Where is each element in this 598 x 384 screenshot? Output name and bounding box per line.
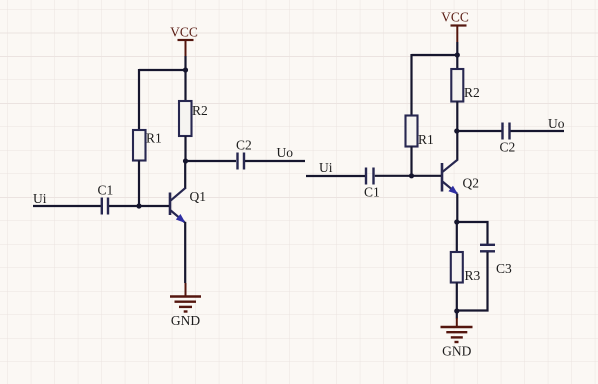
- capacitor C1 (right): [366, 168, 374, 185]
- svg-text:Q1: Q1: [190, 189, 207, 204]
- wire R1 top lead (right): [410, 54, 412, 116]
- junction at collector node (right): [454, 128, 459, 133]
- capacitor C2 (left): [238, 153, 245, 170]
- wire base node to Q1 base (left): [109, 205, 169, 207]
- wire R2 bottom to collector node (right): [456, 102, 458, 132]
- transistor Q2: [442, 160, 458, 194]
- svg-text:R3: R3: [465, 268, 481, 283]
- wire R1 top lead (left): [138, 69, 140, 130]
- capacitor C1 (left): [102, 198, 108, 215]
- svg-text:Uo: Uo: [548, 116, 565, 131]
- wire C2 to output Uo (right): [511, 130, 565, 132]
- wire R1 bottom to base node (right): [410, 147, 412, 177]
- resistor R3: [451, 252, 463, 283]
- junction at ground node (right): [454, 308, 459, 313]
- transistor Q1: [170, 188, 185, 222]
- wire VCC stub to rail junction (right): [456, 42, 458, 55]
- wire collector node to C2 (left): [186, 160, 237, 162]
- wire collector vertical into Q2 (right): [456, 131, 458, 161]
- svg-text:C1: C1: [98, 183, 114, 198]
- wire R3 bottom to ground node (right): [456, 283, 458, 319]
- svg-text:GND: GND: [171, 313, 200, 328]
- wire base node to Q2 base (right): [375, 175, 441, 177]
- junction at emitter node (right): [454, 219, 459, 224]
- wire collector node to C2 (right): [457, 130, 502, 132]
- junction at collector node (left): [183, 158, 188, 163]
- svg-text:C3: C3: [496, 261, 512, 276]
- wire emitter node to R3 (right): [456, 222, 458, 252]
- junction at base node (left): [136, 203, 141, 208]
- wire rail to R2 (right): [456, 55, 458, 69]
- svg-text:Ui: Ui: [33, 191, 47, 206]
- wire collector vertical into Q1 (left): [184, 161, 186, 189]
- power symbol VCC (left): [170, 25, 198, 57]
- svg-text:VCC: VCC: [170, 25, 198, 40]
- svg-text:R2: R2: [464, 85, 480, 100]
- svg-text:Uo: Uo: [277, 145, 294, 160]
- junction at VCC rail (left): [183, 67, 188, 72]
- wire rail to R1 branch (right): [412, 54, 458, 56]
- junction at base node (right): [409, 173, 414, 178]
- svg-text:GND: GND: [442, 344, 471, 359]
- wire input Ui to C1 (left): [33, 205, 101, 207]
- wire C2 to output Uo (left): [245, 160, 305, 162]
- svg-text:R1: R1: [418, 132, 434, 147]
- svg-text:Ui: Ui: [319, 160, 333, 175]
- power symbol VCC (right): [441, 10, 469, 43]
- capacitor C2 (right): [503, 123, 510, 140]
- wire rail to R2 (left): [184, 70, 186, 101]
- svg-text:Q2: Q2: [463, 176, 480, 191]
- wire Q1 emitter to ground (left): [184, 222, 186, 283]
- svg-text:R1: R1: [146, 131, 162, 146]
- wire C3 bottom lead: [457, 252, 488, 311]
- wire VCC stub to rail junction (left): [184, 56, 186, 70]
- junction at VCC rail (right): [455, 52, 460, 57]
- resistor R2 (right): [451, 69, 463, 102]
- svg-text:C2: C2: [500, 140, 516, 155]
- ground symbol (left): [170, 283, 201, 312]
- ground symbol (right): [441, 318, 473, 342]
- svg-text:C1: C1: [364, 185, 380, 200]
- resistor R1 (left): [133, 130, 146, 161]
- resistor R1 (right): [406, 116, 418, 147]
- resistor R2 (left): [179, 101, 192, 136]
- svg-text:R2: R2: [192, 103, 208, 118]
- wire emitter node to C3 branch top (right): [457, 222, 488, 244]
- wire R1 bottom to base node (left): [138, 161, 140, 208]
- svg-text:C2: C2: [236, 138, 252, 153]
- wire input Ui to C1 (right): [306, 175, 365, 177]
- wire rail to R1 branch (left): [139, 69, 186, 71]
- svg-text:VCC: VCC: [441, 10, 469, 25]
- wire R2 bottom to collector node (left): [184, 136, 186, 161]
- capacitor C3: [480, 245, 495, 252]
- wire Q2 emitter to emitter node (right): [456, 194, 458, 222]
